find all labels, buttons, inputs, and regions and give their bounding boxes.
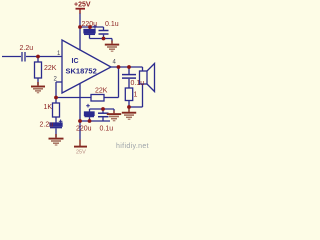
- wire zobel down: [128, 67, 130, 74]
- svg-text:25V: 25V: [76, 150, 86, 155]
- resistor R4 1ohm body: [125, 88, 132, 101]
- wire node to speaker return: [129, 106, 143, 108]
- wire input horizontal: [2, 56, 21, 58]
- wire pin2 horizontal: [56, 81, 62, 83]
- junction dot zobel tap: [127, 65, 131, 69]
- resistor R3 1K body: [53, 103, 60, 117]
- svg-text:0.1u: 0.1u: [100, 126, 114, 133]
- wire C4 to ground: [55, 128, 57, 137]
- junction dot C5 rail: [88, 119, 92, 123]
- wire R3 to C4: [55, 117, 57, 123]
- junction dot C2 top: [88, 25, 92, 29]
- svg-text:IC: IC: [72, 58, 79, 65]
- junction dot pin3 rail: [78, 119, 82, 123]
- junction dot C6 top: [101, 107, 105, 111]
- power symbol +25V: [76, 9, 86, 14]
- svg-text:1K: 1K: [44, 104, 53, 111]
- junction dot zobel bottom: [127, 105, 131, 109]
- speaker LS1: [140, 71, 148, 84]
- svg-text:+25V: +25V: [74, 2, 91, 9]
- svg-text:0.1u: 0.1u: [131, 80, 145, 87]
- junction dot input node: [36, 55, 40, 59]
- ground G2 top decouple: [105, 41, 119, 52]
- svg-text:2.2u: 2.2u: [20, 45, 34, 52]
- wire R2 to output tap: [104, 97, 119, 99]
- capacitor C7 0.1u zobel plates: [122, 74, 136, 76]
- ground G1 under R1: [31, 82, 45, 93]
- plus mark C2: [93, 25, 97, 29]
- resistor R1 22K body: [35, 62, 42, 78]
- wire to ground G4: [113, 109, 115, 111]
- capacitor C2 220u top stub: [89, 27, 91, 30]
- ground G4 bottom decouple: [107, 111, 121, 121]
- svg-text:1: 1: [134, 92, 138, 99]
- wire +25V rail down to pin5: [79, 13, 81, 51]
- plus mark C4: [59, 120, 63, 124]
- wire output to speaker: [142, 67, 144, 71]
- capacitor C4 2.2u electrolytic plates: [50, 123, 62, 126]
- svg-text:22K: 22K: [95, 88, 108, 95]
- junction dot C3 bottom: [102, 37, 106, 41]
- wire feedback node to R2: [56, 97, 91, 99]
- junction dot feedback node: [54, 96, 58, 100]
- junction dot output tap: [117, 65, 121, 69]
- wire to ground G2: [111, 39, 113, 42]
- wire feedback vertical up to output: [118, 67, 120, 98]
- svg-text:0.1u: 0.1u: [105, 21, 119, 28]
- capacitor C6 0.1u bottom: [102, 109, 104, 113]
- wire junction down to R1: [37, 57, 39, 63]
- capacitor C3 0.1u top: [103, 27, 105, 30]
- svg-text:22K: 22K: [44, 65, 57, 72]
- capacitor C2 220u plates: [84, 30, 95, 33]
- capacitor C5 220u bottom stubs: [89, 109, 91, 112]
- svg-text:SK18752: SK18752: [66, 67, 97, 76]
- wire cap to pin1: [26, 56, 62, 58]
- wire bottom rail: [80, 120, 110, 122]
- op-amp U1 SK18752 triangle: [62, 40, 111, 93]
- wire top decouple bottom rail: [90, 38, 113, 40]
- wire top decoupling horizontal: [80, 26, 104, 28]
- ground G3 under C4: [49, 134, 64, 145]
- junction dot +25V rail: [78, 25, 82, 29]
- wire pin3 down: [79, 84, 81, 140]
- wire bottom decouple top rail: [90, 108, 115, 110]
- power symbol -25V bottom cut: [74, 140, 87, 147]
- ground G5 zobel/speaker: [122, 108, 136, 119]
- capacitor C1 2.2u input plates: [21, 52, 23, 62]
- wire pin2 down: [55, 82, 57, 103]
- wire output: [111, 66, 143, 68]
- wire R4 to node: [128, 101, 130, 108]
- resistor R2 22K feedback body: [91, 95, 104, 102]
- plus mark C5: [86, 104, 90, 108]
- svg-text:220u: 220u: [76, 126, 92, 133]
- wire R1 to ground: [37, 78, 39, 85]
- svg-text:2.2u: 2.2u: [40, 122, 54, 129]
- svg-text:hifidiy.net: hifidiy.net: [116, 143, 149, 150]
